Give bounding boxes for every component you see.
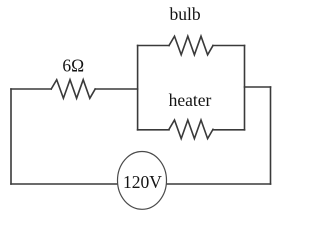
wire bottom right: [167, 183, 271, 185]
wire box left vertical: [137, 46, 139, 130]
svg-text:120V: 120V: [123, 172, 162, 192]
wire left vertical: [10, 89, 12, 184]
wire bottom left: [11, 183, 118, 185]
resistor heater: [169, 120, 213, 139]
source U1 120V ellipse: [118, 152, 167, 210]
wire heater leads: [138, 129, 245, 131]
wire 6ohm leads: [11, 88, 138, 90]
svg-text:heater: heater: [169, 90, 212, 110]
wire box right vertical: [244, 46, 246, 130]
label 6ohm: [62, 56, 84, 76]
wire right vertical: [270, 87, 272, 184]
label 120V: [123, 172, 162, 192]
label bulb: [170, 4, 201, 24]
svg-text:6Ω: 6Ω: [62, 56, 84, 76]
resistor 6ohm: [51, 80, 95, 99]
label heater: [169, 90, 212, 110]
wire stub to parallel box: [245, 86, 271, 88]
svg-text:bulb: bulb: [170, 4, 201, 24]
resistor bulb: [169, 36, 213, 55]
wire bulb leads: [138, 45, 245, 47]
